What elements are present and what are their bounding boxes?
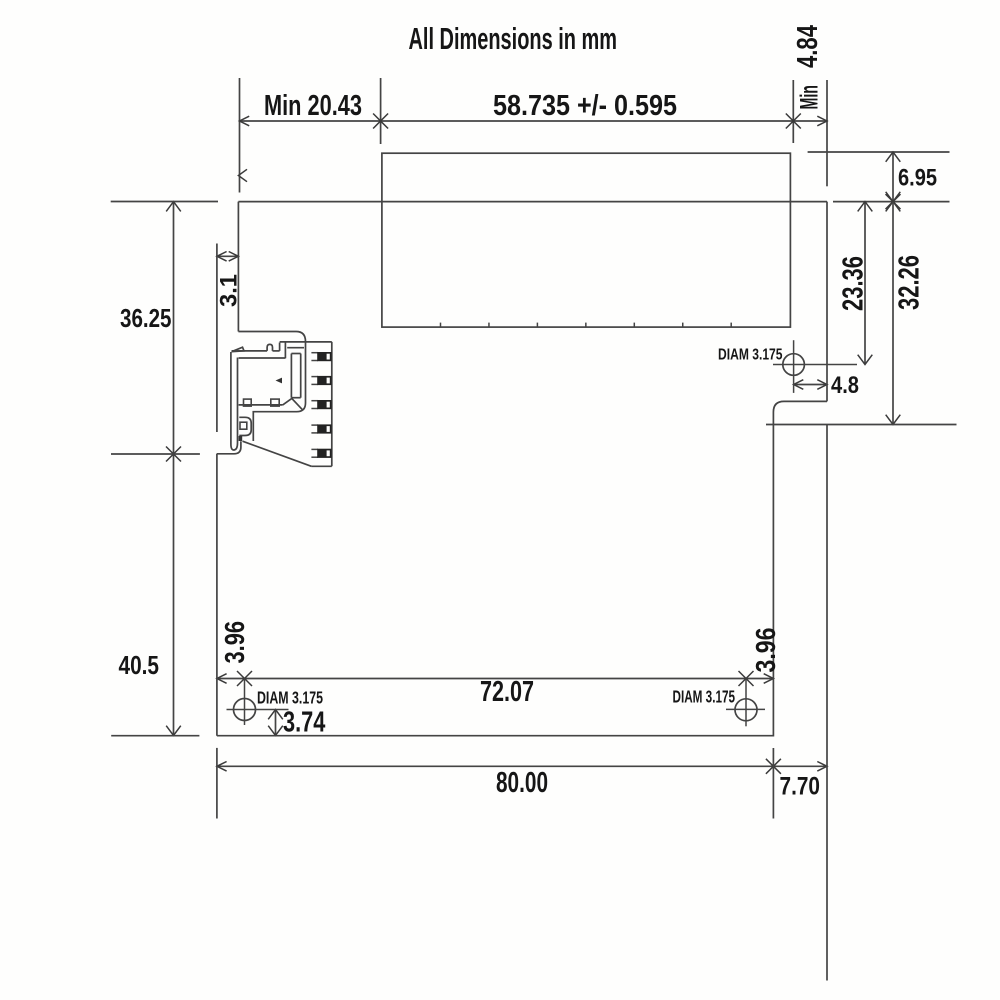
svg-text:DIAM 3.175: DIAM 3.175	[257, 688, 323, 708]
svg-text:36.25: 36.25	[120, 303, 172, 333]
svg-text:4.8: 4.8	[831, 372, 859, 399]
svg-text:72.07: 72.07	[480, 676, 534, 708]
svg-text:40.5: 40.5	[119, 650, 160, 680]
svg-text:DIAM 3.175: DIAM 3.175	[673, 687, 736, 707]
svg-text:7.70: 7.70	[780, 773, 821, 801]
svg-text:Min 20.43: Min 20.43	[264, 90, 362, 122]
svg-text:6.95: 6.95	[898, 165, 937, 192]
svg-text:All Dimensions in mm: All Dimensions in mm	[409, 21, 618, 56]
svg-text:4.84: 4.84	[792, 25, 824, 68]
svg-text:DIAM 3.175: DIAM 3.175	[718, 347, 783, 364]
svg-text:23.36: 23.36	[838, 256, 870, 311]
svg-text:Min: Min	[796, 85, 824, 110]
svg-text:32.26: 32.26	[894, 255, 926, 310]
svg-text:3.96: 3.96	[219, 621, 250, 664]
svg-text:3.74: 3.74	[283, 707, 325, 739]
svg-text:3.96: 3.96	[750, 628, 781, 673]
svg-text:58.735 +/- 0.595: 58.735 +/- 0.595	[493, 90, 677, 122]
svg-text:3.1: 3.1	[216, 274, 243, 307]
svg-text:80.00: 80.00	[496, 767, 548, 799]
